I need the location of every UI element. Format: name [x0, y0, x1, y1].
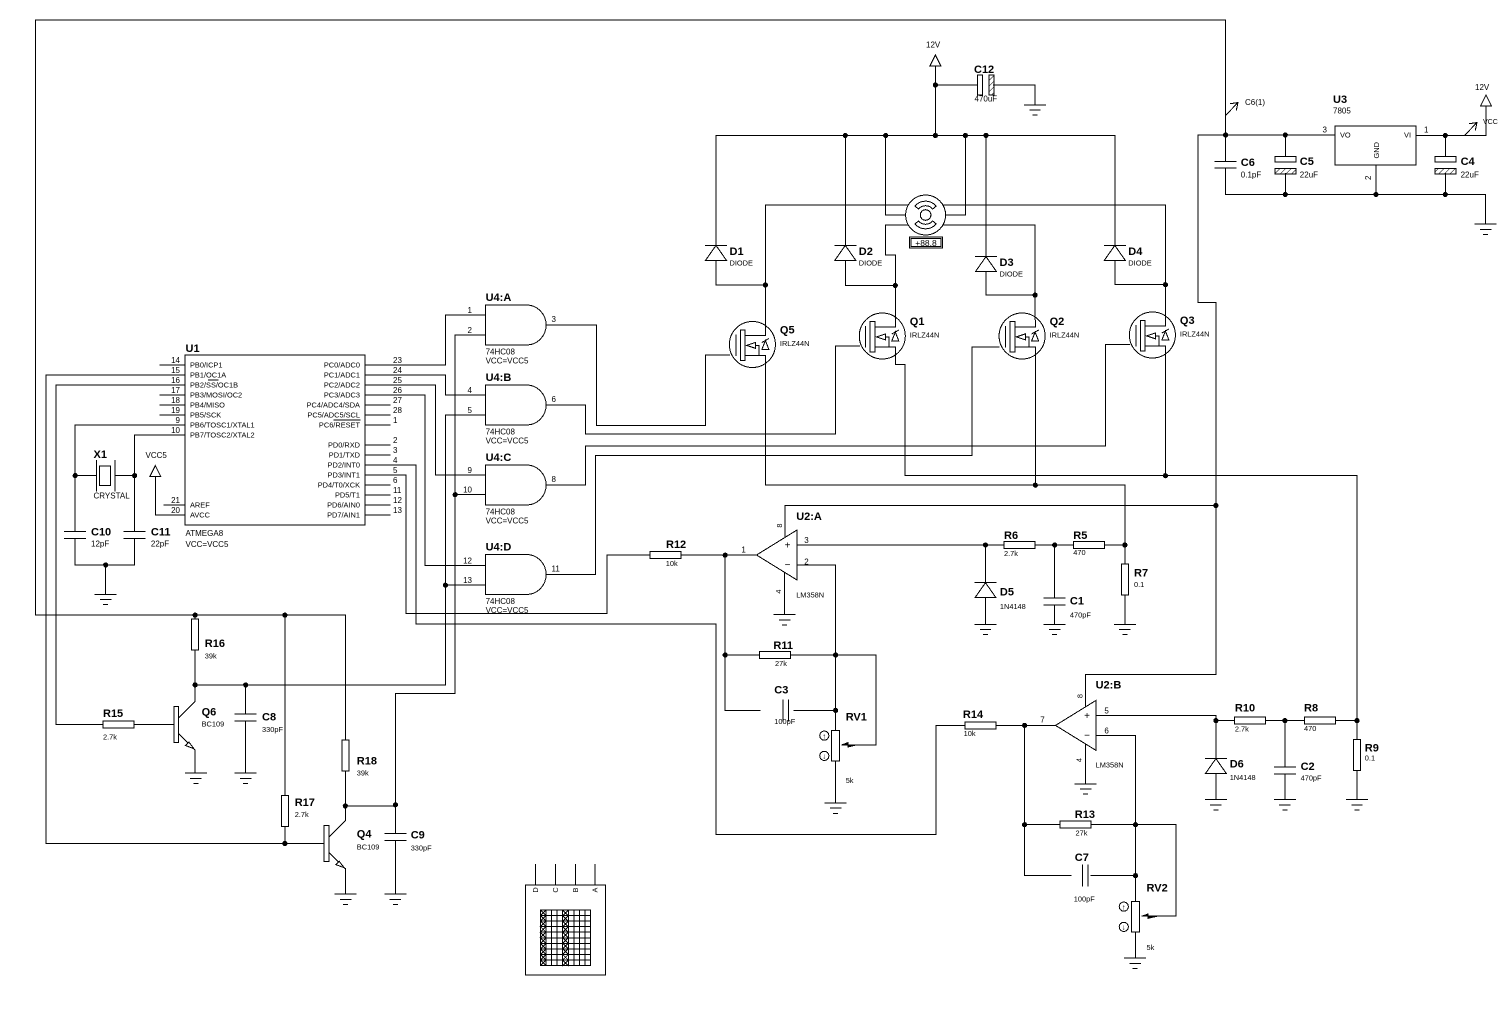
svg-text:2.7k: 2.7k [103, 733, 117, 742]
svg-text:PC1/ADC1: PC1/ADC1 [324, 371, 360, 380]
wire D3 top [985, 135, 987, 256]
wire R17 top [284, 615, 286, 795]
wire U4:B.5 net [445, 415, 485, 685]
pointer VCC [1465, 123, 1477, 136]
svg-text:DIODE: DIODE [1000, 270, 1023, 279]
svg-text:470: 470 [1073, 548, 1085, 557]
wire Q2 drain [1034, 295, 1036, 327]
capacitor C12 [978, 75, 983, 95]
svg-text:26: 26 [393, 386, 402, 395]
wire C1 bottom [1054, 605, 1056, 624]
capacitor C1 [1044, 597, 1065, 599]
AND gate U4:D [486, 555, 546, 595]
svg-text:R13: R13 [1075, 809, 1095, 821]
junction noninv D5 [983, 542, 988, 547]
wire R14 right to opamp [996, 724, 1056, 726]
svg-text:25: 25 [393, 376, 402, 385]
svg-text:24: 24 [393, 366, 402, 375]
junction R13 right [1133, 822, 1138, 827]
wire U2B pin4 gnd [1085, 744, 1087, 784]
wire U4:A out to Q5 gate [546, 325, 729, 425]
resistor R14 [965, 722, 996, 729]
junction U4:C.10 [453, 492, 458, 497]
svg-text:470pF: 470pF [1301, 774, 1322, 783]
svg-text:5: 5 [468, 406, 473, 415]
diode D3 [976, 256, 997, 258]
wire PC0 to U4:A.1 [365, 315, 486, 365]
pointer C6(1) [1226, 103, 1238, 116]
junction vcc bus R16 [193, 613, 198, 618]
wire U2A inv input [797, 565, 836, 710]
wire C4 top [1444, 136, 1446, 157]
svg-text:DIODE: DIODE [730, 258, 753, 267]
svg-text:3: 3 [552, 315, 557, 324]
junction sense bus Q3 [1163, 473, 1168, 478]
junction VO C5 [1283, 132, 1288, 137]
svg-text:D: D [531, 887, 540, 892]
wire R13 left arm [1025, 824, 1060, 826]
svg-text:IRLZ44N: IRLZ44N [1050, 331, 1080, 340]
svg-text:20: 20 [171, 506, 180, 515]
svg-text:11: 11 [393, 486, 402, 495]
ground 7805 bus [1475, 223, 1496, 225]
svg-text:Q4: Q4 [357, 829, 373, 841]
svg-text:U1: U1 [186, 343, 200, 355]
svg-text:Q3: Q3 [1180, 315, 1195, 327]
ground C8 [235, 772, 256, 774]
svg-text:C6: C6 [1241, 157, 1255, 169]
svg-text:PD4/T0/XCK: PD4/T0/XCK [318, 481, 360, 490]
junction vcc bus R17 [282, 613, 287, 618]
wire PD4 stub [365, 484, 390, 486]
svg-text:X1: X1 [94, 449, 107, 461]
wire C12 right to ground [994, 85, 1035, 105]
svg-text:PC6/RESET: PC6/RESET [319, 421, 361, 430]
wire R9 top [1356, 721, 1358, 740]
wire U2A noninv input [797, 544, 986, 546]
junction bus D2 [843, 133, 848, 138]
svg-text:PB4/MISO: PB4/MISO [190, 401, 225, 410]
wire R18 top [344, 615, 346, 740]
svg-text:R12: R12 [666, 539, 686, 551]
svg-text:LM358N: LM358N [1096, 761, 1124, 770]
wire motor bottom chord net Q1 side to Q2-drain [886, 224, 1035, 226]
junction Q4 collector C9 [343, 803, 348, 808]
wire PD2 to R14 long route [365, 465, 965, 834]
svg-text:IRLZ44N: IRLZ44N [1180, 330, 1210, 339]
capacitor C9 [385, 833, 406, 835]
svg-text:10k: 10k [666, 559, 678, 568]
junction X1 left [73, 473, 78, 478]
wire PD3 to R12 route [365, 475, 650, 613]
svg-text:74HC08: 74HC08 [486, 428, 516, 437]
wire Q3 source [1164, 346, 1166, 476]
svg-text:IRLZ44N: IRLZ44N [910, 331, 940, 340]
junction R14 out [1022, 723, 1027, 728]
transistor Q3 body [1129, 312, 1175, 358]
svg-text:12V: 12V [926, 41, 941, 50]
svg-text:C12: C12 [974, 64, 994, 76]
svg-text:VCC5: VCC5 [146, 451, 168, 460]
junction C10-C11 gnd [103, 562, 108, 567]
wire C12 left [935, 84, 977, 86]
wire VCC5 stem to AVCC [155, 478, 185, 515]
svg-text:8: 8 [552, 475, 557, 484]
junction sense bus Q2 [1033, 483, 1038, 488]
diode D1 [706, 244, 727, 246]
svg-text:↓: ↓ [1122, 923, 1126, 932]
capacitor C4 [1435, 156, 1456, 162]
svg-text:D2: D2 [859, 246, 873, 258]
wire pin18 stub [160, 404, 185, 406]
wire pin14 stub [160, 364, 185, 366]
wire C2 top [1284, 721, 1286, 767]
wire U4:A.2 net [395, 335, 485, 805]
svg-text:2.7k: 2.7k [295, 810, 309, 819]
wire VI to C4 and 12V [1416, 106, 1486, 136]
svg-text:U4:C: U4:C [486, 452, 512, 464]
wire PD1 stub [365, 454, 390, 456]
svg-text:2.7k: 2.7k [1004, 549, 1018, 558]
crystal X1 [96, 460, 98, 491]
wire R7 bottom [1124, 595, 1126, 624]
wire D4 anode to Q3 drain [1115, 260, 1166, 284]
svg-text:R17: R17 [295, 797, 315, 809]
IC U3 7805 [1335, 126, 1416, 165]
motor display +88.8 [910, 237, 943, 248]
wire X1 left [75, 475, 96, 477]
svg-text:19: 19 [171, 406, 180, 415]
svg-text:10: 10 [463, 486, 472, 495]
junction R8 R9 [1354, 718, 1359, 723]
svg-text:R10: R10 [1235, 703, 1255, 715]
junction R12 out [723, 553, 728, 558]
svg-text:74HC08: 74HC08 [486, 348, 516, 357]
svg-text:74HC08: 74HC08 [486, 508, 516, 517]
wire PD5 stub [365, 494, 390, 496]
svg-text:1N4148: 1N4148 [1230, 773, 1256, 782]
svg-text:VI: VI [1404, 131, 1411, 140]
wire R9 bottom [1356, 771, 1358, 800]
junction bus D3 [983, 133, 988, 138]
capacitor C8 [235, 713, 256, 715]
wire C10 C11 gnd [75, 539, 134, 565]
svg-text:PD0/RXD: PD0/RXD [328, 441, 360, 450]
svg-text:PB3/MOSI/OC2: PB3/MOSI/OC2 [190, 391, 242, 400]
svg-text:PC3/ADC3: PC3/ADC3 [324, 391, 360, 400]
junction R16 Q6 [193, 682, 198, 687]
svg-text:C1: C1 [1070, 596, 1084, 608]
junction C2 top [1282, 718, 1287, 723]
wire connector stub B [574, 865, 576, 886]
diode D2 [835, 244, 856, 246]
svg-text:Q5: Q5 [780, 325, 795, 337]
svg-text:VCC=VCC5: VCC=VCC5 [486, 517, 529, 526]
svg-text:PC4/ADC4/SDA: PC4/ADC4/SDA [307, 401, 360, 410]
svg-text:C7: C7 [1075, 852, 1089, 864]
wire R10-C2 [1266, 720, 1304, 722]
svg-text:5k: 5k [1147, 943, 1155, 952]
svg-text:4: 4 [393, 456, 398, 465]
svg-text:VCC=VCC5: VCC=VCC5 [486, 357, 529, 366]
ground C2 [1274, 799, 1295, 801]
svg-text:PB1/OC1A: PB1/OC1A [190, 371, 226, 380]
svg-text:PC0/ADC0: PC0/ADC0 [324, 361, 360, 370]
wire Q2 source [1034, 347, 1036, 485]
junction U4:D.13 [443, 583, 448, 588]
svg-text:R8: R8 [1304, 703, 1318, 715]
ground C1 [1044, 623, 1065, 625]
svg-text:16: 16 [171, 376, 180, 385]
svg-text:C9: C9 [411, 830, 425, 842]
wire R13 left node [1025, 725, 1071, 875]
svg-text:18: 18 [171, 396, 180, 405]
wire VO rail [1198, 134, 1335, 136]
wire 12V arrow stem to bus [934, 66, 936, 136]
svg-text:PC5/ADC5/SCL: PC5/ADC5/SCL [307, 411, 360, 420]
junction bus motor-left [883, 133, 888, 138]
svg-text:B: B [571, 887, 580, 892]
wire 12V bus [716, 135, 1115, 137]
svg-text:C5: C5 [1300, 156, 1314, 168]
svg-text:LM358N: LM358N [796, 591, 824, 600]
wire R6 body arms [986, 544, 1005, 546]
svg-text:C10: C10 [91, 527, 111, 539]
svg-text:PD5/T1: PD5/T1 [335, 491, 360, 500]
wire VCC5 frame left vertical [36, 20, 1226, 615]
wire R8 right [1335, 720, 1357, 722]
wire RV1 wiper link [836, 655, 876, 745]
transistor Q4 [324, 826, 329, 862]
svg-text:AVCC: AVCC [190, 511, 211, 520]
wire U3 GND pin [1375, 165, 1377, 195]
svg-text:1: 1 [393, 416, 398, 425]
resistor R11 [760, 652, 791, 659]
svg-text:22pF: 22pF [151, 540, 169, 549]
ground D6 [1205, 799, 1226, 801]
wire R7 top [1124, 545, 1126, 564]
wire U2B noninv input [1096, 715, 1216, 720]
svg-text:Q6: Q6 [202, 707, 217, 719]
ground RV2 [1125, 957, 1146, 959]
svg-text:2.7k: 2.7k [1235, 725, 1249, 734]
wire pin10 XTAL2 [135, 435, 185, 532]
IC U1 ATMEGA8 [185, 355, 365, 525]
junction gndbus C5 [1283, 192, 1288, 197]
junction gndbus U3 [1373, 192, 1378, 197]
wire R15 to Q6 base [134, 724, 173, 726]
junction noninv D6 [1213, 718, 1218, 723]
svg-text:470: 470 [1304, 724, 1316, 733]
svg-text:0.1: 0.1 [1365, 754, 1375, 763]
svg-text:3: 3 [804, 536, 809, 545]
svg-text:C4: C4 [1461, 156, 1476, 168]
svg-text:1N4148: 1N4148 [1000, 602, 1026, 611]
transistor Q5 body [729, 322, 775, 368]
wire motor left terminal [886, 136, 906, 216]
wire U2A pin4 gnd [784, 572, 786, 614]
svg-text:R6: R6 [1004, 530, 1018, 542]
svg-text:R5: R5 [1073, 530, 1087, 542]
junction X1 right [132, 473, 137, 478]
svg-text:+: + [1084, 711, 1090, 722]
wire D6 gnd [1215, 774, 1217, 800]
svg-text:R16: R16 [205, 638, 225, 650]
svg-text:17: 17 [171, 386, 180, 395]
svg-text:VO: VO [1340, 131, 1351, 140]
svg-text:U2:B: U2:B [1096, 680, 1122, 692]
wire D3 anode [986, 272, 1035, 296]
svg-text:GND: GND [1372, 142, 1381, 158]
svg-text:13: 13 [393, 506, 402, 515]
svg-text:27k: 27k [1076, 829, 1088, 838]
svg-text:330pF: 330pF [262, 725, 283, 734]
wire R16 bottom [194, 650, 196, 685]
svg-text:↑: ↑ [822, 731, 826, 740]
wire R17 bottom [284, 827, 286, 844]
resistor R10 [1235, 717, 1266, 724]
wire Q1 drain jog [886, 225, 896, 327]
svg-text:R11: R11 [773, 640, 793, 652]
wire U4:D.13 tap [445, 584, 485, 586]
svg-text:12pF: 12pF [91, 540, 109, 549]
ground Q4 [335, 893, 356, 895]
svg-text:BC109: BC109 [357, 843, 380, 852]
wire PC1 to U4:B.4 [365, 375, 486, 395]
svg-text:11: 11 [552, 565, 561, 574]
svg-text:ATMEGA8: ATMEGA8 [186, 529, 224, 538]
junction 12V-C12 [933, 82, 938, 87]
svg-text:−: − [785, 560, 791, 571]
svg-text:0.1: 0.1 [1134, 580, 1144, 589]
svg-text:23: 23 [393, 356, 402, 365]
junction C3 right [833, 708, 838, 713]
svg-text:R7: R7 [1134, 568, 1148, 580]
wire Q1-Q3 sense bus to R8 node [905, 476, 1357, 721]
junction D4-Q3 [1163, 282, 1168, 287]
wire C6 bottom to gnd bus [1225, 168, 1227, 194]
wire D3 jog [986, 225, 1035, 295]
svg-text:8: 8 [775, 523, 784, 527]
power 12V top [930, 55, 941, 66]
svg-text:R15: R15 [103, 708, 123, 720]
diode D6 [1205, 758, 1226, 760]
capacitor C7 [1081, 865, 1083, 886]
wire RV2 top [1135, 876, 1137, 902]
wire PB1 pin15 to Q4 base line [46, 375, 324, 844]
svg-text:470uF: 470uF [975, 95, 998, 104]
junction C9 top [393, 802, 398, 807]
op-amp U2:B [1056, 700, 1097, 750]
junction C1 top [1052, 542, 1057, 547]
svg-text:5: 5 [1104, 706, 1109, 715]
svg-text:−: − [1084, 731, 1090, 742]
svg-text:1: 1 [468, 306, 473, 315]
wire D5 drop [985, 545, 987, 583]
svg-text:7805: 7805 [1333, 107, 1351, 116]
ground U2:A pin4 [774, 614, 795, 616]
svg-text:VCC: VCC [1483, 119, 1498, 126]
junction D3-Q2 [1033, 293, 1038, 298]
wire gnd stem C10C11 [105, 565, 107, 594]
wire R11 left arm [725, 654, 760, 656]
svg-text:74HC08: 74HC08 [486, 597, 516, 606]
wire Q6 collector line [195, 684, 445, 686]
wire C3 right [794, 709, 835, 711]
resistor R12 [650, 552, 681, 559]
transistor Q3 internals [1135, 326, 1137, 346]
wire U2B pin8 [1085, 675, 1087, 707]
AND gate U4:A [486, 305, 546, 345]
wire R18 bottom [344, 771, 346, 806]
svg-text:27: 27 [393, 396, 402, 405]
svg-text:↓: ↓ [822, 752, 826, 761]
wire PC2 to U4:C.9 [365, 385, 486, 475]
svg-text:12: 12 [393, 496, 402, 505]
svg-text:↑: ↑ [1122, 902, 1126, 911]
svg-text:VCC=VCC5: VCC=VCC5 [486, 437, 529, 446]
svg-text:C3: C3 [774, 685, 788, 697]
resistor R15 [103, 721, 134, 728]
svg-text:C: C [551, 887, 560, 893]
wire connector stub A [594, 865, 596, 886]
wire PD6 stub [365, 504, 390, 506]
svg-text:9: 9 [468, 466, 473, 475]
junction R13 left [1022, 822, 1027, 827]
svg-text:D1: D1 [730, 246, 744, 258]
wire U4:C.10 tap [455, 494, 485, 496]
junction R5 R7 [1122, 542, 1127, 547]
svg-text:A: A [591, 887, 600, 892]
wire C9 bottom [394, 841, 396, 895]
wire U4:D out to Q2 gate [546, 347, 999, 575]
power VCC5 [150, 466, 161, 477]
potentiometer RV1 [832, 731, 840, 762]
wire RV2 bottom [1135, 932, 1137, 958]
wire C2 bottom [1284, 774, 1286, 800]
junction VO C6 [1223, 132, 1228, 137]
resistor R8 [1304, 717, 1335, 724]
svg-text:R14: R14 [963, 709, 984, 721]
svg-text:PD6/AIN0: PD6/AIN0 [327, 501, 360, 510]
svg-text:21: 21 [171, 496, 180, 505]
wire Q6 collector [194, 685, 196, 702]
wire RV1 top [835, 710, 837, 730]
junction gndbus C4 [1443, 192, 1448, 197]
ground R7 [1114, 623, 1135, 625]
junction vcc line 7805 [1213, 503, 1218, 508]
wire RV2 wiper link [1136, 825, 1177, 917]
svg-text:39k: 39k [357, 769, 369, 778]
ground D5 [975, 623, 996, 625]
svg-text:DIODE: DIODE [1128, 258, 1151, 267]
wire D6 drop [1215, 721, 1217, 759]
svg-text:4: 4 [468, 386, 473, 395]
svg-text:7: 7 [1040, 715, 1045, 724]
wire PC5 stub [365, 414, 390, 416]
wire D5 gnd [985, 598, 987, 625]
wire Q4 emitter to gnd [344, 868, 346, 894]
svg-text:PC2/ADC2: PC2/ADC2 [324, 381, 360, 390]
svg-text:D4: D4 [1128, 246, 1143, 258]
svg-text:4: 4 [1075, 758, 1084, 762]
svg-text:IRLZ44N: IRLZ44N [780, 339, 810, 348]
capacitor C10 [65, 531, 86, 533]
svg-text:AREF: AREF [190, 501, 210, 510]
capacitor C3 [782, 700, 784, 721]
svg-text:PD2/INT0: PD2/INT0 [328, 461, 360, 470]
svg-text:12: 12 [463, 556, 472, 565]
